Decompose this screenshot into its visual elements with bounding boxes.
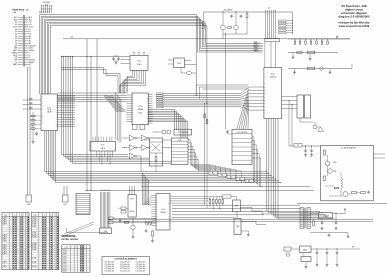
title text block <box>338 4 370 28</box>
regulator caps <box>313 213 338 230</box>
IC3 right pins <box>282 97 297 147</box>
keyboard frame corner <box>64 222 108 236</box>
series resistors row <box>209 197 224 209</box>
bus branch to RAM <box>142 173 152 205</box>
svg-text:(74LS): (74LS) <box>270 77 276 79</box>
wire +5V rail upper <box>62 56 131 58</box>
bus verticals right of ULA <box>61 56 171 164</box>
svg-text:C12 100n 16v: C12 100n 16v <box>105 270 115 272</box>
link LK1 <box>26 67 32 207</box>
svg-text:74LS: 74LS <box>136 64 142 66</box>
membrane text <box>61 235 79 241</box>
logic IC5 <box>130 52 148 71</box>
svg-text:SYMB: SYMB <box>32 258 36 260</box>
rail y203 <box>297 203 387 205</box>
IC3 register box <box>264 68 282 119</box>
svg-text:Z80A: Z80A <box>137 108 143 111</box>
svg-text:b: b <box>51 214 52 216</box>
svg-text:SYMB: SYMB <box>32 262 36 264</box>
resistor pack RP2 <box>279 12 294 34</box>
svg-text:IC7 74LS74: IC7 74LS74 <box>178 132 188 134</box>
bottom data bus <box>172 205 300 218</box>
svg-text:MREQ: MREQ <box>253 42 259 44</box>
svg-text:ROW 1: ROW 1 <box>62 261 67 263</box>
IC11 outputs down <box>252 136 261 187</box>
CPU bottom components <box>133 125 145 130</box>
ROM right pin wires <box>170 195 237 203</box>
connector J2 <box>265 8 280 42</box>
svg-text:OUTSIDE ELEMENTS: OUTSIDE ELEMENTS <box>115 259 138 261</box>
svg-text:+5v: +5v <box>70 37 73 39</box>
svg-text:A4: A4 <box>248 180 250 183</box>
transformer bottom wire <box>310 233 349 238</box>
signal verticals to bottom bus <box>204 103 208 208</box>
keyboard ribbon wires <box>100 190 112 234</box>
EAR MIC jacks <box>109 217 157 224</box>
svg-text:D2: D2 <box>43 11 45 13</box>
address lines CPU to IC3 <box>163 87 264 110</box>
svg-text:D3: D3 <box>45 11 47 13</box>
CPU right pin stubs <box>148 95 152 124</box>
svg-text:a: a <box>71 247 72 249</box>
control lines to IC3 <box>196 85 248 99</box>
svg-text:TR5: TR5 <box>333 171 336 173</box>
video bias components row <box>288 36 350 45</box>
clock buffer transistors <box>153 130 172 134</box>
ferrite coil <box>145 222 152 226</box>
video mixer row 2 <box>288 51 338 60</box>
svg-text:4116: 4116 <box>130 211 134 213</box>
svg-text:C12 100n 16v: C12 100n 16v <box>105 264 115 266</box>
power input circuit <box>300 246 361 268</box>
decoupling caps C1 C2 <box>112 56 130 64</box>
svg-text:C12 100n 16v: C12 100n 16v <box>136 266 146 268</box>
IC9 counter <box>90 137 116 166</box>
svg-text:C12 100n 16v: C12 100n 16v <box>136 270 146 272</box>
tape connector J9 <box>41 2 52 13</box>
ULA right pin stubs <box>58 96 76 127</box>
svg-text:www.zxspectrum.lt/16k: www.zxspectrum.lt/16k <box>338 24 370 28</box>
logic IC6 <box>168 58 196 68</box>
svg-text:TR4: TR4 <box>333 162 336 164</box>
buffer IC10 stack <box>171 138 188 164</box>
svg-text:C12 100n 16v: C12 100n 16v <box>120 262 130 264</box>
video bus verticals left of CPU <box>115 93 121 143</box>
ROM IC4 box <box>152 194 171 231</box>
+5V power rail <box>63 37 350 39</box>
svg-text:C12 100n 16v: C12 100n 16v <box>105 268 115 270</box>
svg-text:C12 100n 16v: C12 100n 16v <box>120 264 130 266</box>
crystal X1 block <box>144 138 171 172</box>
svg-text:a: a <box>14 214 15 216</box>
bus staircase to net labels <box>196 15 263 104</box>
keyboard matrix table 1 <box>2 212 29 269</box>
modulator internals <box>324 150 370 196</box>
feed wires from +5V rail <box>86 39 97 191</box>
svg-text:+5v MODULATOR: +5v MODULATOR <box>340 147 356 150</box>
svg-text:A0: A0 <box>212 172 214 175</box>
speaker transistor TR2 <box>131 217 154 242</box>
modulator transformer coils <box>300 208 310 229</box>
svg-text:ROW 1: ROW 1 <box>62 268 67 270</box>
CPU left pin stubs <box>127 95 133 121</box>
svg-text:C12 100n 16v: C12 100n 16v <box>120 268 130 270</box>
svg-text:b: b <box>21 214 22 216</box>
svg-text:A3: A3 <box>239 178 241 181</box>
clock oscillator circuit <box>202 10 293 39</box>
IC5 outputs to CPU top <box>120 70 146 93</box>
svg-text:SYMB: SYMB <box>32 222 36 224</box>
svg-text:key: key <box>4 214 7 216</box>
CPU left diagonal fan <box>104 96 125 113</box>
svg-text:ROW 1: ROW 1 <box>62 252 67 254</box>
svg-text:D0: D0 <box>39 11 41 13</box>
DC jack <box>284 247 300 256</box>
data bus ULA to CPU <box>58 93 127 102</box>
svg-text:SYMB: SYMB <box>32 249 36 251</box>
svg-text:C12 100n 16v: C12 100n 16v <box>136 262 146 264</box>
ground rails bottom <box>108 219 373 221</box>
bus CPU to divider logic <box>148 110 188 139</box>
video emitter follower <box>300 118 324 132</box>
svg-text:KEYBD. MATRIX: KEYBD. MATRIX <box>61 238 79 241</box>
svg-text:C12 100n 16v: C12 100n 16v <box>136 264 146 266</box>
svg-text:SYMB: SYMB <box>32 232 36 234</box>
svg-text:C12 100n 16v: C12 100n 16v <box>105 266 115 268</box>
transistor block P2 <box>234 212 250 237</box>
svg-text:C12 100n 16v: C12 100n 16v <box>120 270 130 272</box>
IC3 top connections <box>265 42 276 68</box>
svg-text:SYMB: SYMB <box>32 224 36 226</box>
inverter gates IC8 <box>122 135 151 172</box>
svg-text:ROW 1: ROW 1 <box>62 271 67 273</box>
svg-text:D5: D5 <box>49 11 51 13</box>
svg-text:ROW 1: ROW 1 <box>62 259 67 261</box>
svg-text:SYMB: SYMB <box>32 266 36 268</box>
svg-text:REG: REG <box>303 250 308 252</box>
svg-text:IC10: IC10 <box>178 140 182 142</box>
ULA bottom cap <box>35 132 38 136</box>
svg-text:X2 14MHz: X2 14MHz <box>224 10 233 12</box>
clock wires with drops <box>62 68 121 93</box>
svg-text:D4: D4 <box>47 11 49 13</box>
svg-text:SYMB: SYMB <box>32 245 36 247</box>
svg-text:conn: conn <box>65 247 69 249</box>
svg-text:key: key <box>34 214 37 216</box>
keyboard connector KB1 <box>76 194 90 215</box>
bias resistors RAM <box>118 207 128 213</box>
video mixer row 3 <box>288 64 352 74</box>
7805 regulator <box>310 208 346 219</box>
main address bus mid <box>45 131 281 184</box>
svg-text:D1: D1 <box>41 11 43 13</box>
svg-text:(B): (B) <box>26 9 29 11</box>
svg-text:SYMB: SYMB <box>32 219 36 221</box>
svg-text:C12 100n 16v: C12 100n 16v <box>105 262 115 264</box>
svg-text:TR1: TR1 <box>130 199 133 201</box>
IC3 bottom pins to bottom bus <box>267 119 336 219</box>
svg-text:CPU: CPU <box>138 112 143 114</box>
IC7 latch <box>174 129 192 135</box>
bus jog wires <box>241 208 271 225</box>
svg-text:SYMB: SYMB <box>32 236 36 238</box>
svg-text:IC11 74LS157: IC11 74LS157 <box>237 132 248 134</box>
modulator output lines <box>373 154 385 158</box>
svg-text:LK1: LK1 <box>27 204 30 206</box>
svg-text:C12 100n 16v: C12 100n 16v <box>120 266 130 268</box>
keyboard matrix table 2 <box>32 212 59 269</box>
CPU IC2 Z80 <box>132 93 148 125</box>
svg-text:MREQ: MREQ <box>253 44 259 46</box>
outside elements legend <box>102 257 150 275</box>
svg-text:b: b <box>75 247 76 249</box>
svg-text:SYMB: SYMB <box>32 247 36 249</box>
wire to modulator <box>289 144 321 157</box>
svg-text:SYMB: SYMB <box>32 243 36 245</box>
svg-text:diag.rev 2.0 05/06/2000: diag.rev 2.0 05/06/2000 <box>338 14 370 18</box>
link LK2 <box>63 186 69 206</box>
svg-text:SYMB: SYMB <box>32 217 36 219</box>
clock feed down to IC11 <box>225 33 226 129</box>
IC11 top fan to IC3 <box>237 89 249 129</box>
svg-text:A2: A2 <box>230 176 232 179</box>
net label boxes on bus <box>209 171 254 182</box>
IC12 analog switch <box>297 95 311 118</box>
svg-text:(A): (A) <box>14 11 17 14</box>
svg-text:C12 100n 16v: C12 100n 16v <box>136 268 146 270</box>
svg-text:SYMB: SYMB <box>32 226 36 228</box>
svg-text:a: a <box>44 214 45 216</box>
svg-text:ROW 1: ROW 1 <box>62 249 67 251</box>
regulator P1 <box>233 200 241 212</box>
RAM IC6 box <box>128 186 136 217</box>
svg-text:WAIT: WAIT <box>13 63 17 66</box>
TV modulator box <box>321 145 374 200</box>
svg-text:A1: A1 <box>221 174 223 177</box>
svg-text:ROW 1: ROW 1 <box>62 264 67 266</box>
svg-text:A7: A7 <box>29 63 31 66</box>
svg-text:ROW 1: ROW 1 <box>62 266 67 268</box>
bus wire labels <box>39 11 51 13</box>
membrane table 3 <box>62 245 90 273</box>
ULA IC1 <box>41 94 58 131</box>
power rails mid <box>85 187 314 191</box>
svg-text:ROW 1: ROW 1 <box>62 257 67 259</box>
resistor pack RP1 <box>157 93 164 108</box>
svg-text:TR3: TR3 <box>236 226 239 228</box>
svg-text:ULA: ULA <box>47 111 52 114</box>
svg-text:ROW 1: ROW 1 <box>62 254 67 256</box>
multiplexer IC11 stack <box>226 129 252 164</box>
svg-text:LK2: LK2 <box>64 204 67 206</box>
IC10 outputs to bus <box>188 140 242 184</box>
svg-text:MEMBRANE: MEMBRANE <box>61 235 75 238</box>
address bus top corner <box>40 15 207 94</box>
svg-text:ROM: ROM <box>161 212 166 214</box>
resistor ladder left of ULA <box>31 112 41 143</box>
svg-text:SYMB: SYMB <box>32 234 36 236</box>
edge connector J1 <box>12 8 36 66</box>
ULA left pin wires <box>23 98 42 109</box>
oscillator can <box>181 68 196 75</box>
